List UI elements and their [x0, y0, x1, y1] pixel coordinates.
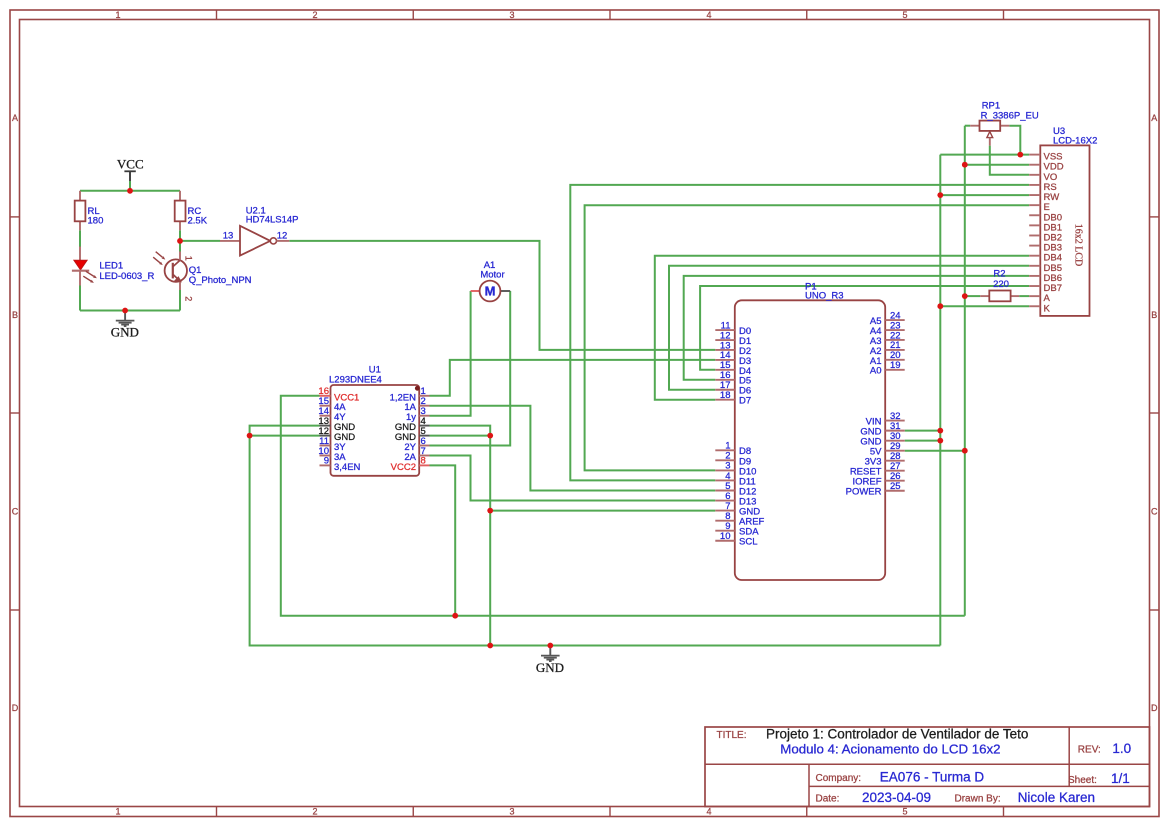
- svg-text:VCC2: VCC2: [391, 462, 416, 473]
- svg-text:C: C: [12, 507, 19, 517]
- U3 pin DB7: [1029, 285, 1040, 287]
- P1 pin 27 RESET: [885, 470, 905, 472]
- U1 pin 7 2A (right): [419, 455, 429, 457]
- U1 pin 16 VCC1 (left): [320, 395, 331, 397]
- wire U1 pin4 GND to gnd vertical: [430, 426, 491, 646]
- wire LCD K line: [940, 305, 1029, 307]
- resistor RL: [79, 191, 81, 201]
- wire Q1 collector node to inverter input: [180, 240, 220, 242]
- svg-text:4: 4: [706, 10, 711, 20]
- svg-text:Drawn By:: Drawn By:: [955, 794, 1001, 805]
- title block divider horizontal row2: [809, 785, 1150, 787]
- junction P1 5V on 5V bus: [962, 448, 968, 454]
- wire RL to LED1 anode: [79, 230, 81, 247]
- wire inverter output to D2 net: [289, 241, 715, 350]
- U1 pin 13 GND (left): [320, 425, 331, 427]
- svg-text:13: 13: [223, 230, 234, 241]
- P1 pin 24 A5: [885, 319, 905, 321]
- svg-text:L293DNEE4: L293DNEE4: [329, 374, 382, 385]
- P1 pin 28 3V3: [885, 460, 905, 462]
- P1 pin 21 A2: [885, 349, 905, 351]
- P1 pin 15 D4: [715, 369, 735, 371]
- svg-text:2: 2: [312, 807, 317, 817]
- svg-text:K: K: [1044, 303, 1051, 314]
- junction P1 GND31 on GND bus: [937, 428, 943, 434]
- U3 pin DB5: [1029, 265, 1040, 267]
- IC U3 LCD-16X2 body: [1040, 145, 1089, 316]
- op-amp U2.1 inverter HD74LS14P: [220, 240, 240, 242]
- P1 pin 9 SDA: [715, 530, 735, 532]
- wire RP1 left leg: [965, 125, 970, 127]
- wire Q1 emitter to bottom rail: [179, 290, 181, 311]
- wire U1 pin12 GND join: [250, 435, 320, 437]
- wire LCD DB5 to P1 D6: [669, 266, 1029, 390]
- svg-text:1.0: 1.0: [1112, 741, 1131, 756]
- wire 5V bus vertical right: [964, 126, 966, 616]
- wire U1 pin16 VCC1 to VCC rail: [281, 396, 965, 616]
- U1 pin 10 3A (left): [320, 455, 331, 457]
- U1 pin 9 3,4EN (left): [320, 464, 331, 466]
- svg-text:Sheet:: Sheet:: [1068, 775, 1097, 786]
- U1 pin 12 GND (left): [320, 435, 331, 437]
- P1 pin 11 D0: [715, 329, 735, 331]
- P1 pin 19 A0: [885, 369, 905, 371]
- U3 pin VDD: [1029, 164, 1040, 166]
- svg-text:3: 3: [509, 807, 514, 817]
- svg-text:GND: GND: [111, 325, 139, 340]
- Q1 light arrows: [156, 252, 163, 258]
- svg-text:Projeto 1: Controlador de Vent: Projeto 1: Controlador de Ventilador de …: [766, 726, 1028, 741]
- svg-text:5: 5: [902, 10, 907, 20]
- U3 pin VO: [1029, 174, 1040, 176]
- wire P1 GND pin7 to gnd vertical: [490, 510, 715, 512]
- wire U1 pin3 1y to motor left: [430, 291, 471, 416]
- P1 pin 14 D3: [715, 359, 735, 361]
- net flag GND (bottom rail): [549, 646, 551, 656]
- svg-text:5: 5: [902, 807, 907, 817]
- junction P1 GND30 on GND bus: [937, 438, 943, 444]
- wire U1 pin2 1A to P1 D12: [430, 406, 716, 491]
- P1 pin 26 IOREF: [885, 480, 905, 482]
- U1 pin 11 3Y (left): [320, 445, 331, 447]
- U3 pin RW: [1029, 194, 1040, 196]
- junction K on GND bus: [937, 303, 943, 309]
- svg-text:D: D: [1151, 703, 1158, 713]
- svg-text:25: 25: [890, 481, 901, 492]
- IC U1 L293DNEE4 body: [331, 385, 420, 476]
- junction Q1 collector node: [177, 238, 183, 244]
- frame column ticks top: [216, 10, 218, 20]
- wire LCD DB4 to P1 D7: [655, 256, 1029, 400]
- resistor RC: [179, 191, 181, 201]
- wire 5V bus to R2 left: [965, 295, 980, 297]
- P1 pin 25 POWER: [885, 490, 905, 492]
- U3 pin E: [1029, 204, 1040, 206]
- frame row ticks right: [1150, 216, 1160, 218]
- wire GND bus vertical right: [939, 155, 941, 646]
- P1 pin 6 D13: [715, 500, 735, 502]
- wire LED1 cathode to bottom rail: [79, 286, 81, 311]
- connector P1 UNO_R3 body: [735, 300, 885, 580]
- svg-text:Company:: Company:: [816, 773, 862, 784]
- svg-text:GND: GND: [536, 660, 564, 675]
- P1 pin 29 5V: [885, 450, 905, 452]
- svg-text:HD74LS14P: HD74LS14P: [246, 215, 299, 226]
- wire VCC top rail left circuit: [80, 190, 180, 192]
- junction RW on GND bus: [937, 192, 943, 198]
- svg-text:10: 10: [720, 531, 731, 542]
- svg-text:2: 2: [312, 10, 317, 20]
- U1 pin1 corner dot: [415, 386, 420, 391]
- title block divider vertical company column: [808, 764, 810, 806]
- svg-text:Nicole Karen: Nicole Karen: [1018, 790, 1095, 805]
- junction VDD on 5V bus: [962, 162, 968, 168]
- P1 pin 4 D11: [715, 479, 735, 481]
- svg-text:A: A: [1151, 113, 1157, 123]
- frame row ticks left: [10, 216, 20, 218]
- svg-text:Date:: Date:: [816, 794, 840, 805]
- title block outline: [705, 727, 1150, 807]
- P1 pin 13 D2: [715, 349, 735, 351]
- P1 pin 8 AREF: [715, 520, 735, 522]
- U3 pin DB1: [1029, 224, 1040, 226]
- P1 pin 12 D1: [715, 339, 735, 341]
- junction R2 on 5V bus: [962, 293, 968, 299]
- wire R2 right to LCD A: [1019, 295, 1029, 297]
- svg-text:R_3386P_EU: R_3386P_EU: [981, 110, 1039, 121]
- wire LCD RW line: [940, 194, 1029, 196]
- U3 pin DB3: [1029, 245, 1040, 247]
- wire U1 pin5 GND to gnd vertical: [430, 435, 491, 437]
- U1 pin 4 GND (right): [419, 425, 429, 427]
- junction P1 GND7 node: [487, 508, 493, 514]
- wire LCD E to P1 D10: [585, 205, 1030, 470]
- U1 pin 3 1y (right): [419, 415, 429, 417]
- P1 pin 7 GND: [715, 510, 735, 512]
- P1 pin 31 GND: [885, 430, 905, 432]
- wire RC bottom to node: [179, 230, 181, 241]
- potentiometer RP1 R_3386P_EU: [970, 125, 979, 127]
- svg-text:TITLE:: TITLE:: [717, 730, 747, 741]
- wire LCD DB7 to P1 D4: [700, 286, 1029, 370]
- resistor R2: [980, 295, 989, 297]
- svg-text:C: C: [1151, 507, 1158, 517]
- svg-text:LED-0603_R: LED-0603_R: [99, 271, 154, 282]
- U3 pin DB4: [1029, 255, 1040, 257]
- transistor Q1: [165, 259, 187, 281]
- P1 pin 17 D6: [715, 389, 735, 391]
- P1 pin 23 A4: [885, 329, 905, 331]
- wire P1 5V to 5v bus: [905, 450, 965, 452]
- wire RP1 right leg: [1009, 126, 1020, 155]
- title block divider vertical rev column: [1068, 727, 1070, 786]
- svg-text:3,4EN: 3,4EN: [334, 462, 361, 473]
- wire U1 pin7 2A to P1 D13: [430, 456, 716, 501]
- P1 pin 20 A1: [885, 359, 905, 361]
- svg-text:A: A: [12, 113, 18, 123]
- motor A1: [471, 290, 480, 292]
- wire LCD RS to P1 D11: [570, 185, 1029, 481]
- svg-text:4: 4: [706, 807, 711, 817]
- P1 pin 30 GND: [885, 440, 905, 442]
- svg-text:SCL: SCL: [739, 537, 757, 548]
- svg-text:M: M: [485, 284, 496, 299]
- svg-text:UNO_R3: UNO_R3: [805, 291, 844, 302]
- U1 pin 14 4Y (left): [320, 415, 331, 417]
- svg-text:220: 220: [993, 279, 1009, 290]
- svg-text:1/1: 1/1: [1111, 771, 1130, 786]
- wire U1 pin1 1,2EN to P1 D3: [430, 360, 716, 396]
- U3 pin DB2: [1029, 234, 1040, 236]
- junction VCC flag node: [127, 188, 133, 194]
- svg-text:1: 1: [184, 256, 194, 261]
- svg-text:9: 9: [324, 456, 329, 467]
- wire Q1 collector stub upper: [179, 241, 181, 252]
- svg-text:VCC: VCC: [117, 156, 144, 171]
- U1 pin 15 4A (left): [320, 405, 331, 407]
- P1 pin 18 D7: [715, 399, 735, 401]
- svg-text:1: 1: [115, 807, 120, 817]
- P1 pin 3 D10: [715, 469, 735, 471]
- junction VCC2 on VCC rail: [452, 613, 458, 619]
- junction RP1 leg on VSS line: [1017, 152, 1023, 158]
- P1 pin 32 VIN: [885, 420, 905, 422]
- junction GND flag node bottom: [547, 643, 553, 649]
- svg-text:3: 3: [509, 10, 514, 20]
- svg-text:1: 1: [115, 10, 120, 20]
- LED1 light emission arrows: [86, 271, 94, 276]
- svg-text:REV:: REV:: [1078, 744, 1101, 755]
- frame column ticks bottom: [216, 807, 218, 817]
- svg-text:16x2 LCD: 16x2 LCD: [1073, 224, 1084, 267]
- P1 pin 2 D9: [715, 459, 735, 461]
- wire P1 GND31 to gnd bus: [905, 430, 941, 432]
- wire U1 pin8 VCC2 down to VCC rail: [430, 465, 456, 615]
- P1 pin 5 D12: [715, 490, 735, 492]
- svg-text:2: 2: [184, 296, 194, 301]
- svg-text:Motor: Motor: [480, 270, 504, 281]
- svg-text:A0: A0: [870, 366, 882, 377]
- junction GND vertical on GND rail: [487, 643, 493, 649]
- P1 pin 22 A3: [885, 339, 905, 341]
- wire P1 GND30 to gnd bus: [905, 440, 941, 442]
- svg-text:EA076 - Turma D: EA076 - Turma D: [880, 770, 985, 785]
- svg-text:19: 19: [890, 360, 901, 371]
- U3 pin DB6: [1029, 275, 1040, 277]
- junction GND flag node left: [122, 308, 128, 314]
- svg-text:18: 18: [720, 390, 731, 401]
- P1 pin 16 D5: [715, 379, 735, 381]
- title block divider horizontal row1: [705, 763, 1150, 765]
- U1 pin 6 2Y (right): [419, 445, 429, 447]
- U1 pin 8 VCC2 (right): [419, 464, 429, 466]
- U1 pin 5 GND (right): [419, 435, 429, 437]
- svg-text:B: B: [12, 310, 18, 320]
- wire LCD VSS line: [940, 154, 1029, 156]
- U3 pin K: [1029, 305, 1040, 307]
- wire LCD VDD line: [965, 164, 1029, 166]
- svg-text:D7: D7: [739, 396, 751, 407]
- svg-text:D: D: [12, 703, 19, 713]
- U3 pin A: [1029, 295, 1040, 297]
- wire LCD DB6 to P1 D5: [684, 276, 1029, 380]
- svg-text:POWER: POWER: [846, 487, 882, 498]
- svg-text:LCD-16X2: LCD-16X2: [1053, 135, 1097, 146]
- svg-text:8: 8: [421, 456, 426, 467]
- svg-text:Q_Photo_NPN: Q_Photo_NPN: [189, 275, 252, 286]
- LED LED1: [79, 247, 81, 261]
- svg-text:2.5K: 2.5K: [188, 215, 208, 226]
- svg-text:12: 12: [277, 230, 288, 241]
- wire U1 pin13 GND to GND rail: [250, 426, 941, 646]
- U3 pin DB0: [1029, 214, 1040, 216]
- P1 pin 1 D8: [715, 449, 735, 451]
- junction U1 right GND node: [487, 433, 493, 439]
- svg-text:2023-04-09: 2023-04-09: [862, 790, 931, 805]
- U3 pin RS: [1029, 184, 1040, 186]
- U3 pin VSS: [1029, 154, 1040, 156]
- wire bottom GND rail left circuit: [80, 310, 180, 312]
- svg-text:B: B: [1151, 310, 1157, 320]
- P1 pin 10 SCL: [715, 540, 735, 542]
- U1 pin 2 1A (right): [419, 405, 429, 407]
- svg-text:Modulo 4: Acionamento do LCD 1: Modulo 4: Acionamento do LCD 16x2: [780, 741, 1000, 756]
- wire RP1 wiper to LCD VO: [990, 146, 1029, 175]
- junction U1 GND pins node: [247, 433, 253, 439]
- wire U1 pin6 2Y to motor right: [430, 291, 511, 446]
- U1 pin 1 1,2EN (right): [419, 395, 429, 397]
- svg-text:180: 180: [88, 215, 104, 226]
- wire VCC flag stem lower: [129, 181, 131, 191]
- net flag GND (left circuit): [124, 311, 126, 321]
